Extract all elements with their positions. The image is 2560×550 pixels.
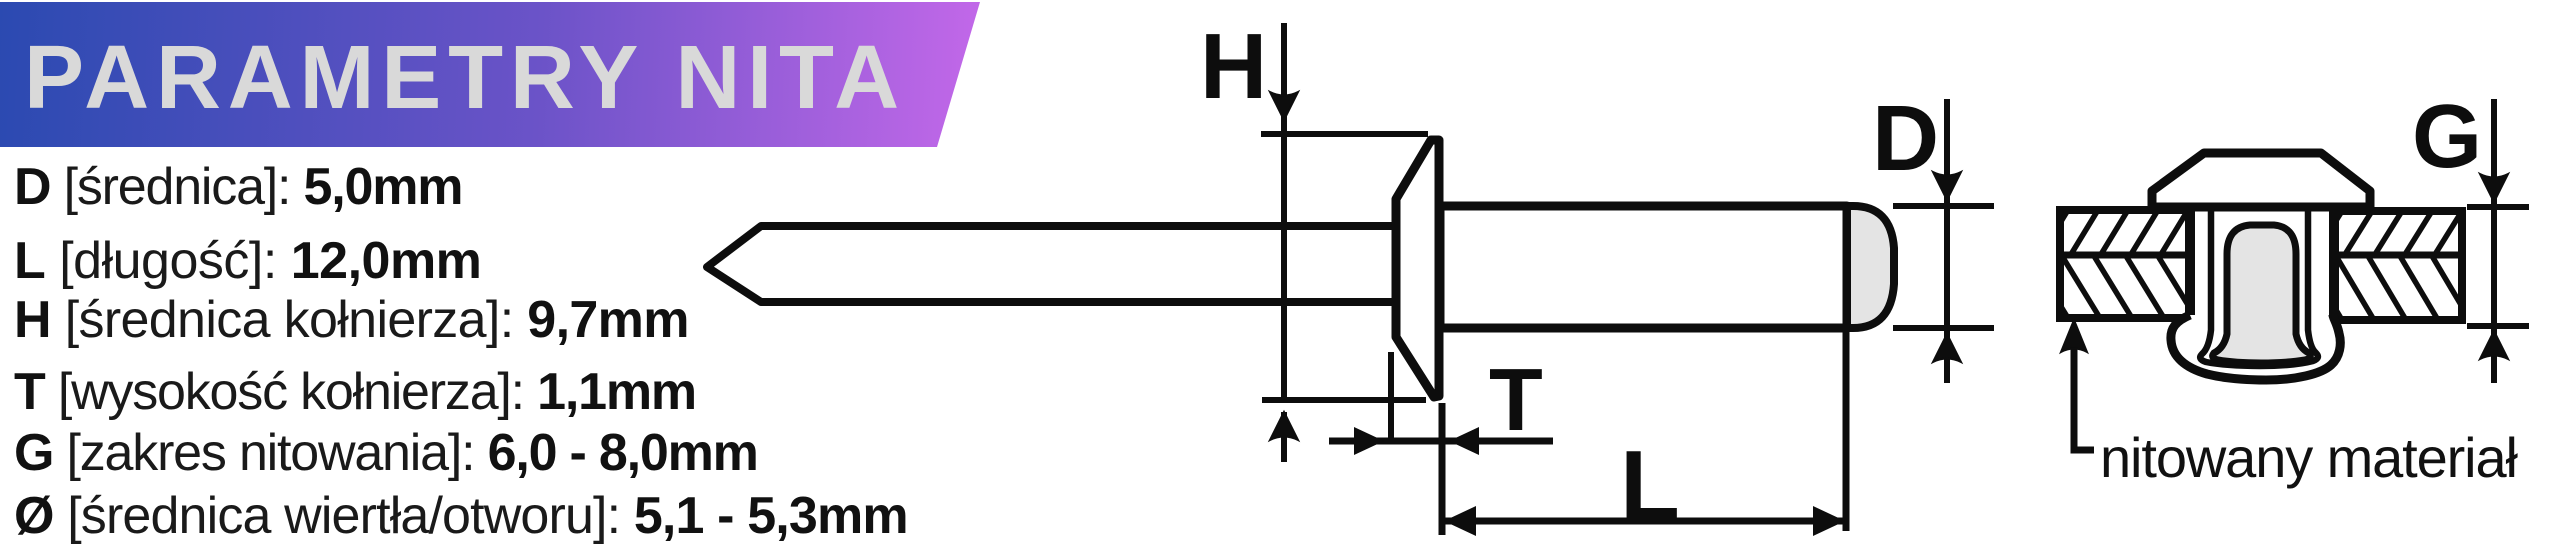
param line G xyxy=(14,427,758,479)
dim H main line xyxy=(1281,23,1287,400)
callout arrowhead xyxy=(2061,320,2087,352)
rivet mandrel pin xyxy=(707,226,1398,302)
dim L extension line right xyxy=(1843,328,1850,531)
param line Ø xyxy=(14,490,908,542)
rivet body end cap (gray dome) xyxy=(1847,206,1894,328)
right plate hatching top sheet xyxy=(2314,211,2492,256)
dim L extension line left xyxy=(1439,403,1446,535)
svg-text:G: G xyxy=(2412,87,2482,187)
rivet flange (collar) xyxy=(1396,140,1439,397)
dim D arrow down xyxy=(1933,172,1961,200)
svg-text:nitowany materiał: nitowany materiał xyxy=(2100,426,2519,489)
dim G tick bottom xyxy=(2467,323,2529,329)
dim D arrow up xyxy=(1933,334,1961,362)
left plate hatching bottom sheet xyxy=(2030,256,2196,318)
svg-text:T: T xyxy=(1489,350,1543,449)
dim T line xyxy=(1329,438,1553,445)
left plate of joint xyxy=(2060,210,2190,318)
left plate hatching top sheet xyxy=(2040,210,2218,256)
right plate of joint xyxy=(2334,211,2462,320)
param line H xyxy=(14,294,689,346)
svg-text:D: D xyxy=(1872,86,1939,190)
right plate hatching bottom sheet xyxy=(2304,256,2470,320)
dim G arrow up xyxy=(2480,331,2508,359)
title text PARAMETRY NITA xyxy=(24,27,906,130)
right plate mid line xyxy=(2334,252,2462,259)
callout arrow line xyxy=(2074,330,2094,450)
set rivet sleeve wall right xyxy=(2329,207,2339,320)
param line T xyxy=(14,366,696,418)
set rivet sleeve inner wall xyxy=(2200,209,2318,366)
dim D main line xyxy=(1944,99,1950,383)
dim L arrow left xyxy=(1444,506,1476,536)
param line L xyxy=(14,235,481,287)
dim T arrow right xyxy=(1354,427,1384,455)
svg-text:H: H xyxy=(1200,14,1267,118)
dim L line xyxy=(1444,518,1845,525)
set rivet sleeve wall left xyxy=(2185,207,2195,320)
dim T extension line xyxy=(1388,352,1394,444)
set rivet mandrel head (gray dome) xyxy=(2213,225,2311,363)
svg-text:L: L xyxy=(1620,430,1680,540)
dim H arrow up xyxy=(1270,412,1298,440)
dim D extension line top xyxy=(1893,203,1994,209)
set rivet bulb outer xyxy=(2171,315,2340,380)
dim H arrow tail xyxy=(1281,412,1287,462)
dim L arrow right xyxy=(1813,506,1845,536)
set rivet head (hat) xyxy=(2152,153,2370,207)
dim H arrow down xyxy=(1270,92,1298,120)
dim T arrow left xyxy=(1449,427,1479,455)
dim G arrow down xyxy=(2480,174,2508,202)
title banner gradient ribbon xyxy=(0,2,980,147)
dim H extension line bottom xyxy=(1262,397,1426,403)
param line D xyxy=(14,161,462,213)
dim D extension line bottom xyxy=(1893,325,1994,331)
left plate mid line xyxy=(2060,252,2190,259)
dim G tick top xyxy=(2467,204,2529,210)
dim G main line xyxy=(2491,99,2497,383)
rivet body sleeve xyxy=(1440,206,1847,328)
dim H extension line top xyxy=(1261,131,1428,137)
